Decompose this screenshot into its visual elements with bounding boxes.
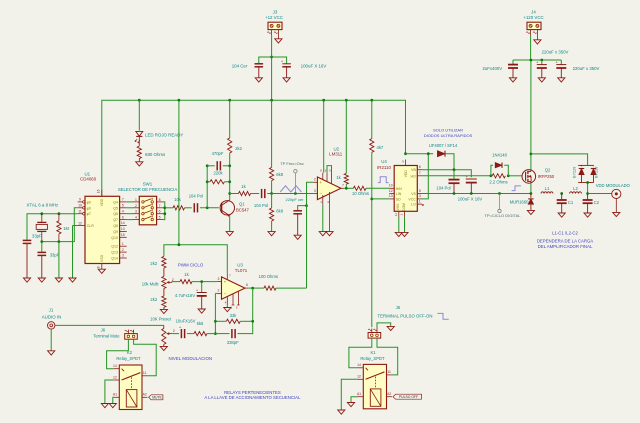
junction xtal top right bbox=[58, 212, 61, 215]
resistor 6k8 lower bbox=[270, 194, 284, 232]
wire audio line bbox=[55, 324, 164, 326]
svg-text:220k: 220k bbox=[213, 170, 223, 175]
svg-text:TP=CICLO DIGITAL: TP=CICLO DIGITAL bbox=[484, 213, 521, 218]
resistor 33k bbox=[215, 313, 252, 323]
svg-text:HO: HO bbox=[411, 174, 417, 178]
ground IR2110 VSS bbox=[395, 232, 402, 236]
svg-text:CLR: CLR bbox=[87, 224, 95, 228]
ground CLR bbox=[69, 278, 76, 282]
svg-text:4.7uFx16V: 4.7uFx16V bbox=[175, 293, 195, 298]
junction rail x272 bbox=[270, 99, 273, 102]
wire K2 A1 to ground bbox=[113, 397, 114, 403]
op-amp U2 LM311 bbox=[313, 146, 344, 204]
junction bus row3 bbox=[163, 212, 166, 215]
svg-text:104 Pol: 104 Pol bbox=[254, 203, 268, 208]
ground 220uF b bbox=[558, 78, 565, 82]
resistor 680 Ohms bbox=[137, 146, 166, 162]
ground VDD MODULADO bbox=[613, 212, 620, 216]
svg-text:15: 15 bbox=[121, 233, 125, 237]
ground MUR1660 bbox=[527, 210, 534, 214]
svg-text:PULSO OFF: PULSO OFF bbox=[399, 395, 418, 399]
resistor 6k8 upper bbox=[270, 100, 284, 193]
wire LM311 output bbox=[344, 187, 353, 189]
svg-text:11: 11 bbox=[78, 210, 82, 214]
svg-text:5k6: 5k6 bbox=[197, 321, 204, 326]
svg-text:220uF x 350V: 220uF x 350V bbox=[542, 50, 569, 55]
wire LM311 pin1 to ground bbox=[322, 205, 324, 232]
ground J5 pin2 bbox=[387, 326, 394, 330]
svg-text:Q1: Q1 bbox=[239, 201, 245, 206]
resistor 1k ramp bbox=[239, 184, 251, 196]
svg-text:−: − bbox=[320, 192, 323, 197]
svg-text:10K Preset: 10K Preset bbox=[150, 316, 172, 321]
svg-text:1: 1 bbox=[135, 198, 137, 202]
junction inv 33k bbox=[214, 320, 217, 323]
capacitor 220uF 350V b bbox=[556, 59, 600, 77]
wire HO to gate network bbox=[422, 175, 491, 177]
svg-text:3: 3 bbox=[419, 194, 421, 198]
svg-text:6: 6 bbox=[159, 210, 161, 214]
capacitor 104 Pol input bbox=[189, 193, 203, 212]
junction rail x323 bbox=[322, 99, 325, 102]
junction 220pF node bbox=[305, 204, 308, 207]
wire K1 A1 to ground bbox=[351, 397, 358, 403]
wire modulation to pin2 bbox=[307, 182, 314, 288]
capacitor 104 Cer bbox=[232, 64, 263, 78]
junction 220k left bbox=[206, 180, 209, 183]
ground LM311 pin4 bbox=[326, 232, 333, 236]
potentiometer 10k Multi bbox=[142, 268, 174, 296]
diode D BY229 pair bbox=[573, 165, 599, 182]
ground K1 pin12 bbox=[338, 410, 345, 414]
svg-text:DEL AMPLIFICADOR FINAL: DEL AMPLIFICADOR FINAL bbox=[538, 244, 593, 249]
junction Q1 base node bbox=[206, 206, 209, 209]
svg-text:680 Ohms: 680 Ohms bbox=[145, 152, 166, 157]
capacitor C1 bbox=[557, 194, 574, 213]
svg-text:L2: L2 bbox=[573, 186, 578, 191]
svg-text:VB: VB bbox=[411, 168, 416, 172]
svg-text:338pF: 338pF bbox=[227, 340, 239, 345]
svg-text:6: 6 bbox=[419, 165, 421, 169]
svg-text:+: + bbox=[224, 280, 227, 285]
svg-text:100 Ohms: 100 Ohms bbox=[259, 274, 278, 279]
wire K1 pin12 to ground bbox=[341, 379, 358, 410]
ground K2 pin12 bbox=[101, 404, 108, 408]
wire 104 Cer branch bbox=[259, 57, 272, 64]
junction rail x372 bbox=[370, 99, 373, 102]
capacitor 220pF cer bbox=[285, 197, 306, 235]
svg-text:L1-C1 /L2-C2: L1-C1 /L2-C2 bbox=[552, 231, 578, 236]
svg-text:5: 5 bbox=[419, 189, 421, 193]
svg-text:7: 7 bbox=[419, 171, 421, 175]
inductor L2 bbox=[570, 186, 582, 193]
diode 1N4148 bbox=[491, 153, 508, 176]
svg-text:NIVEL MODULACION: NIVEL MODULACION bbox=[169, 356, 213, 361]
junction source node bbox=[530, 192, 533, 195]
svg-text:A LA LLAVE DE ACCIONAMIENTO SE: A LA LLAVE DE ACCIONAMIENTO SECUENCIAL bbox=[204, 395, 301, 400]
ground 4.7uF bbox=[198, 309, 205, 313]
svg-text:C2: C2 bbox=[594, 200, 600, 205]
transistor Q1 BC547 bbox=[220, 200, 249, 217]
svg-text:13: 13 bbox=[389, 194, 393, 198]
svg-text:12: 12 bbox=[113, 375, 117, 379]
svg-text:SELECTOR DE FRECUENCIA: SELECTOR DE FRECUENCIA bbox=[118, 187, 178, 192]
wire VS row bbox=[422, 193, 531, 195]
svg-text:5: 5 bbox=[159, 216, 161, 220]
wire LM311 balance loop bbox=[327, 166, 332, 173]
waveform triangle glyph bbox=[280, 186, 301, 192]
ground 100uF bbox=[283, 78, 290, 82]
svg-text:φ0: φ0 bbox=[87, 206, 91, 210]
svg-text:φT: φT bbox=[87, 212, 92, 216]
svg-text:104 Cer: 104 Cer bbox=[232, 64, 248, 69]
test point TP CICLO DIGITAL bbox=[484, 194, 521, 218]
svg-text:L1: L1 bbox=[545, 186, 550, 191]
wire +12V rail bbox=[102, 100, 406, 196]
wire U1 Q5 to SW1 pin2 bbox=[127, 207, 133, 209]
resistor 1k pwm bbox=[180, 272, 192, 284]
wire wiper to 1k bbox=[172, 281, 180, 284]
ground TL071 bbox=[224, 308, 231, 312]
svg-text:φ0: φ0 bbox=[87, 200, 91, 204]
connector J3 +12 VCC bbox=[265, 9, 283, 38]
test point TP Frec=Osc bbox=[280, 161, 304, 194]
svg-text:+: + bbox=[320, 180, 323, 185]
svg-text:J1: J1 bbox=[49, 307, 54, 312]
svg-text:2k2: 2k2 bbox=[150, 261, 157, 266]
svg-text:U4: U4 bbox=[381, 159, 387, 164]
svg-text:A1: A1 bbox=[357, 392, 361, 396]
svg-text:7: 7 bbox=[122, 198, 124, 202]
svg-text:2uFx400V: 2uFx400V bbox=[483, 66, 503, 71]
svg-text:LIN: LIN bbox=[396, 192, 402, 196]
svg-text:6: 6 bbox=[122, 215, 124, 219]
diode MUR1660 bbox=[510, 194, 534, 211]
wire cap to divider node bbox=[267, 193, 271, 195]
relay K1 Relay_SPDT bbox=[357, 350, 392, 409]
wire 10 Ohms to HIN bbox=[366, 187, 389, 189]
svg-text:IRFP250: IRFP250 bbox=[538, 174, 555, 179]
svg-text:6k8: 6k8 bbox=[276, 208, 283, 213]
svg-text:16: 16 bbox=[97, 189, 101, 193]
wire J4 to HV rail bbox=[530, 35, 532, 154]
wire 1k to 104 Pol 2 bbox=[251, 193, 260, 195]
capacitor 100uF X 16V bootstrap bbox=[458, 174, 483, 202]
junction inv 338p bbox=[214, 332, 217, 335]
svg-text:Q10: Q10 bbox=[111, 236, 118, 240]
svg-text:220uF x 350V: 220uF x 350V bbox=[573, 66, 600, 71]
svg-text:12: 12 bbox=[389, 189, 393, 193]
junction SD bbox=[370, 198, 373, 201]
resistor 2k2 lower bbox=[150, 296, 166, 309]
junction HV x542 bbox=[540, 59, 543, 62]
capacitor 100uF X 16V bbox=[281, 59, 327, 78]
svg-text:PWM CICLO: PWM CICLO bbox=[178, 262, 204, 267]
svg-text:LED ROJO READY: LED ROJO READY bbox=[145, 132, 183, 137]
junction rail x179 bbox=[178, 99, 181, 102]
svg-text:100uF X 16V: 100uF X 16V bbox=[458, 197, 483, 202]
wire J5 pin2 to K1 pin11 bbox=[377, 338, 398, 375]
wire bus to 10k bbox=[165, 207, 173, 209]
svg-text:TERMINAL PULSO OFF-ON: TERMINAL PULSO OFF-ON bbox=[378, 313, 433, 318]
wire 100 Ohms to comparator bbox=[276, 287, 307, 289]
junction VB cap bbox=[453, 168, 456, 171]
svg-text:MUR1660: MUR1660 bbox=[510, 199, 530, 204]
wire triangle node bbox=[272, 193, 314, 195]
svg-text:4: 4 bbox=[122, 209, 124, 213]
svg-text:Q12: Q12 bbox=[111, 245, 118, 249]
ground 33pF right bbox=[38, 278, 45, 282]
IC U4 IR2110 bbox=[377, 159, 424, 216]
svg-text:7: 7 bbox=[159, 204, 161, 208]
junction VS 100uF bbox=[470, 192, 473, 195]
svg-text:2k2: 2k2 bbox=[150, 297, 157, 302]
svg-text:2: 2 bbox=[173, 329, 175, 333]
junction divider mid bbox=[270, 192, 273, 195]
ground 680 Ohms bbox=[136, 162, 143, 166]
junction pin3 node bbox=[200, 280, 203, 283]
wire Q2 source bbox=[530, 183, 532, 193]
svg-text:Q2: Q2 bbox=[545, 168, 551, 173]
svg-text:10k: 10k bbox=[174, 197, 182, 202]
wire 10k to 104 Pol bbox=[185, 207, 192, 209]
svg-text:10 Ohms: 10 Ohms bbox=[352, 191, 369, 196]
svg-text:14: 14 bbox=[357, 363, 361, 367]
junction gate net left bbox=[490, 174, 493, 177]
LED D ready bbox=[135, 131, 183, 146]
svg-text:SD: SD bbox=[396, 197, 401, 201]
svg-text:VDD: VDD bbox=[100, 198, 104, 206]
resistor 220k bbox=[207, 170, 230, 184]
svg-text:Q5: Q5 bbox=[113, 206, 118, 210]
svg-text:2: 2 bbox=[135, 204, 137, 208]
wire J5 pin2 to ground bbox=[377, 323, 391, 329]
wire 1M bottom to ground bbox=[58, 242, 60, 278]
ground K2 A1 bbox=[109, 404, 116, 408]
junction xtal bottom right bbox=[58, 240, 61, 243]
svg-text:J6: J6 bbox=[101, 327, 106, 332]
svg-text:6: 6 bbox=[246, 283, 248, 287]
svg-text:10uFX16V: 10uFX16V bbox=[176, 318, 196, 323]
wire inverting node bbox=[215, 292, 216, 294]
svg-text:TL071: TL071 bbox=[235, 268, 248, 273]
svg-text:LM311: LM311 bbox=[329, 151, 343, 156]
svg-text:IR2110: IR2110 bbox=[377, 165, 391, 170]
ground 6k8 lower bbox=[268, 232, 275, 236]
svg-text:VS: VS bbox=[411, 192, 416, 196]
svg-text:UF4007 / SF14: UF4007 / SF14 bbox=[429, 143, 458, 148]
svg-text:7: 7 bbox=[342, 183, 344, 187]
wire crystal bottom to pin10 bbox=[42, 208, 78, 242]
capacitor 470pF bbox=[207, 151, 230, 171]
svg-text:11: 11 bbox=[143, 371, 147, 375]
diode UF4007 bbox=[429, 143, 458, 157]
svg-text:VDD: VDD bbox=[404, 170, 408, 178]
wire U1 Q6 to SW1 pin3 bbox=[127, 213, 133, 215]
net label MUTE bbox=[149, 395, 163, 400]
svg-text:11: 11 bbox=[394, 213, 398, 216]
svg-text:1: 1 bbox=[419, 199, 421, 203]
capacitor 33pF left bbox=[23, 234, 42, 278]
svg-text:6k8: 6k8 bbox=[276, 172, 283, 177]
svg-text:Q7: Q7 bbox=[113, 218, 118, 222]
net label PULSO OFF bbox=[393, 394, 422, 399]
junction 470pF left bbox=[206, 164, 209, 167]
svg-text:33pF: 33pF bbox=[50, 253, 60, 258]
switch SW1 SELECTOR DE FRECUENCIA bbox=[118, 182, 178, 225]
crystal Y1 bbox=[36, 214, 47, 242]
wire SW1 output bus bbox=[163, 202, 165, 220]
capacitor 2uFx400V bbox=[483, 60, 518, 78]
ground IR2110 COM bbox=[401, 232, 408, 236]
svg-text:VSS: VSS bbox=[100, 254, 104, 262]
svg-text:XTAL 6 a 8 MHz: XTAL 6 a 8 MHz bbox=[27, 203, 59, 208]
junction xtal top left bbox=[40, 212, 43, 215]
capacitor 33pF right bbox=[38, 242, 60, 278]
svg-text:11: 11 bbox=[387, 370, 391, 374]
wire drain to BY229 bbox=[531, 154, 588, 166]
capacitor 104 Pol 2 bbox=[254, 189, 268, 208]
svg-text:BC547: BC547 bbox=[236, 207, 249, 212]
svg-text:Terminal Mute: Terminal Mute bbox=[93, 333, 120, 338]
svg-text:2.2 Ohms: 2.2 Ohms bbox=[489, 179, 507, 184]
svg-text:DEPENDERA DE LA CARGA: DEPENDERA DE LA CARGA bbox=[537, 239, 593, 244]
ground 2uF bbox=[509, 78, 516, 82]
svg-text:Q4: Q4 bbox=[113, 200, 118, 204]
wire PWM rail bbox=[164, 245, 227, 274]
potentiometer 10K Preset bbox=[150, 316, 175, 346]
wire J5 pin1 to K1 pin14 bbox=[349, 338, 372, 368]
svg-text:A2: A2 bbox=[143, 393, 147, 397]
junction TL071 output bbox=[251, 287, 254, 290]
wire TL071 output bbox=[248, 287, 264, 289]
svg-text:33pF: 33pF bbox=[32, 234, 42, 239]
svg-text:3: 3 bbox=[217, 277, 219, 281]
svg-text:4: 4 bbox=[135, 216, 137, 220]
capacitor 4.7uFx16V bbox=[175, 282, 207, 309]
svg-text:VDD MODULADO: VDD MODULADO bbox=[596, 183, 631, 188]
svg-text:J5: J5 bbox=[396, 305, 401, 310]
svg-text:VCC: VCC bbox=[408, 197, 416, 201]
svg-text:1: 1 bbox=[122, 242, 124, 246]
capacitor 10uFX16V bbox=[176, 318, 196, 338]
wire IR2110 VSS to ground bbox=[398, 217, 400, 233]
wire 104 Pol to Q1 base node bbox=[200, 207, 219, 209]
junction LM311 output bbox=[345, 187, 348, 190]
resistor 100 Ohms bbox=[259, 274, 278, 290]
resistor 1k pullup bbox=[336, 100, 348, 188]
junction drain node bbox=[530, 153, 533, 156]
svg-text:2k2: 2k2 bbox=[235, 146, 242, 151]
wire 10uF to 5k6 bbox=[187, 333, 194, 335]
ground C2 bbox=[584, 213, 591, 217]
svg-text:33k: 33k bbox=[230, 313, 238, 318]
connector J5 bbox=[368, 329, 381, 339]
ground 10K Preset bbox=[160, 346, 167, 350]
ground U1 VSS bbox=[98, 269, 105, 273]
junction HV x531 bbox=[530, 59, 533, 62]
wire LM311 pin4 to ground bbox=[329, 205, 331, 232]
svg-text:CD4060: CD4060 bbox=[80, 176, 97, 181]
resistor 10k bbox=[173, 197, 185, 210]
svg-text:14: 14 bbox=[121, 221, 125, 225]
svg-text:10: 10 bbox=[78, 204, 82, 208]
svg-text:U3: U3 bbox=[237, 263, 243, 268]
junction +12V cap branch bbox=[270, 56, 273, 59]
capacitor 104 Pol bootstrap bbox=[436, 170, 459, 194]
wire to VDD MODULADO bbox=[588, 193, 612, 195]
inductor L1 bbox=[541, 186, 553, 193]
wire BY229 to output node bbox=[587, 183, 589, 194]
svg-text:Relay_SPDT: Relay_SPDT bbox=[116, 356, 141, 361]
junction TP ciclo tap bbox=[498, 192, 501, 195]
IC U1 CD4060 bbox=[78, 171, 127, 269]
junction PWM rail bbox=[178, 243, 181, 246]
svg-text:2: 2 bbox=[314, 178, 316, 182]
svg-text:470pF: 470pF bbox=[212, 151, 224, 156]
svg-text:TP Frec=Osc: TP Frec=Osc bbox=[280, 161, 304, 166]
junction VS 104Pol bbox=[453, 192, 456, 195]
svg-text:AUDIO IN: AUDIO IN bbox=[42, 315, 62, 320]
svg-text:14: 14 bbox=[113, 364, 117, 368]
junction 1k branch bbox=[228, 192, 231, 195]
svg-text:12: 12 bbox=[357, 375, 361, 379]
resistor 4k7 bbox=[370, 100, 384, 199]
connector J4 +120 VCC bbox=[523, 9, 543, 39]
resistor 10 Ohms bbox=[352, 186, 369, 196]
ground J3 pin2 bbox=[275, 39, 282, 43]
capacitor 220uF 350V a bbox=[536, 59, 547, 77]
resistor 5k6 bbox=[194, 321, 207, 336]
wire PWM supply bbox=[178, 100, 180, 245]
connector J6 Terminal Mute bbox=[93, 327, 137, 339]
relay K2 Relay_SPDT bbox=[113, 350, 148, 410]
svg-text:SW1: SW1 bbox=[143, 182, 153, 187]
wire HV cap row bbox=[513, 59, 561, 61]
junction VCC riser bbox=[427, 152, 430, 155]
svg-text:Q9: Q9 bbox=[113, 230, 118, 234]
svg-text:Q14: Q14 bbox=[111, 257, 118, 261]
connector J1 AUDIO IN bbox=[42, 307, 62, 350]
wire Q2 drain bbox=[530, 154, 532, 170]
svg-text:8: 8 bbox=[159, 198, 161, 202]
wire 1k branch to resistor bbox=[230, 193, 239, 195]
wire base node up bbox=[206, 166, 208, 208]
svg-text:104 Pol: 104 Pol bbox=[189, 193, 203, 198]
ground xtal net bbox=[55, 278, 62, 282]
svg-text:Q6: Q6 bbox=[113, 212, 118, 216]
svg-text:BY229: BY229 bbox=[573, 167, 577, 178]
wire gate bbox=[508, 175, 522, 177]
junction xtal bottom left bbox=[40, 240, 43, 243]
junction out 33k bbox=[251, 320, 254, 323]
svg-text:104 Pol: 104 Pol bbox=[436, 186, 450, 191]
junction 220k right bbox=[228, 180, 231, 183]
svg-text:9: 9 bbox=[79, 198, 81, 202]
wire SD net down to J5 bbox=[371, 199, 373, 327]
svg-text:1N4148: 1N4148 bbox=[492, 153, 507, 158]
junction 470pF right bbox=[228, 164, 231, 167]
capacitor C2 bbox=[583, 194, 600, 213]
wire 100uF branch bbox=[272, 57, 287, 64]
svg-text:HIN: HIN bbox=[396, 187, 403, 191]
connector VDD MODULADO bbox=[596, 183, 631, 212]
ground 220pF bbox=[294, 235, 301, 239]
wire SD to IR2110 pin13 bbox=[372, 198, 390, 200]
ground C1 bbox=[558, 213, 565, 217]
svg-text:8: 8 bbox=[97, 266, 101, 268]
svg-text:K1: K1 bbox=[370, 350, 376, 355]
